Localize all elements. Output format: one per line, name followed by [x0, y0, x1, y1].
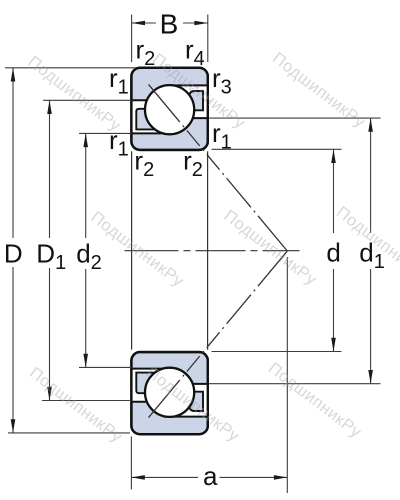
d extension top — [212, 148, 342, 150]
d2 arrow bottom — [83, 354, 88, 368]
D arrow bottom — [11, 419, 16, 433]
svg-text:D1: D1 — [36, 238, 66, 274]
d2 extension top (inner ring shoulder line) — [79, 132, 131, 134]
svg-text:ПодшипникРу: ПодшипникРу — [269, 49, 369, 132]
watermarks — [24, 49, 400, 446]
d1 extension bottom — [209, 383, 381, 385]
a arrow left — [131, 475, 144, 480]
svg-text:a: a — [203, 461, 218, 491]
d2 dimension line — [85, 133, 87, 238]
bottom bearing section (mirror) — [130, 352, 207, 434]
D1 arrow top — [47, 100, 52, 114]
bore silhouette line right — [207, 151, 209, 350]
svg-text:ПодшипникРу: ПодшипникРу — [220, 207, 320, 290]
d2 extension bottom — [79, 366, 131, 368]
d arrow top — [331, 149, 336, 163]
contact angle line top — [149, 84, 288, 251]
a arrow right — [274, 475, 287, 480]
d1 extension top (inner ring shoulder right) — [209, 117, 381, 119]
d dimension line — [333, 149, 335, 233]
D dimension line — [12, 68, 14, 238]
bore silhouette line left — [131, 151, 133, 350]
B dimension line — [132, 22, 156, 24]
D extension top — [5, 67, 136, 69]
svg-text:ПодшипникРу: ПодшипникРу — [265, 359, 365, 442]
axis centerline — [125, 250, 300, 252]
B arrow right — [194, 21, 207, 26]
D1 extension top (outer ring land line) — [43, 99, 131, 101]
d arrow bottom — [331, 338, 336, 352]
svg-text:D: D — [4, 238, 23, 268]
D1 extension bottom — [42, 400, 131, 402]
svg-text:ПодшипникРу: ПодшипникРу — [26, 364, 126, 447]
D extension bottom — [8, 432, 130, 434]
D1 arrow bottom — [47, 387, 52, 401]
B extension line left — [131, 15, 133, 63]
a extension left — [130, 437, 132, 490]
d1 dimension line — [370, 118, 372, 233]
d extension bottom — [212, 351, 342, 353]
svg-text:d: d — [326, 238, 340, 268]
B arrow left — [132, 21, 145, 26]
a extension right (from contact apex) — [286, 257, 288, 493]
svg-text:r4: r4 — [185, 35, 205, 71]
D arrow top — [11, 68, 16, 82]
d2 arrow top — [83, 133, 88, 147]
d1 arrow top — [368, 118, 373, 132]
contact angle line bottom — [149, 251, 288, 418]
d1 arrow bottom — [368, 370, 373, 384]
a dimension line — [131, 476, 198, 478]
svg-text:B: B — [160, 9, 179, 40]
top bearing section — [130, 68, 207, 150]
svg-text:ПодшипникРу: ПодшипникРу — [87, 208, 187, 291]
D1 dimension line — [49, 100, 51, 238]
svg-text:d2: d2 — [76, 238, 102, 274]
B extension line right — [207, 15, 209, 63]
